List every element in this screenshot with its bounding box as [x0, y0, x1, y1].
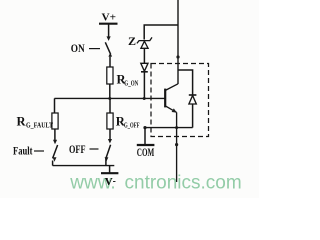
- svg-text:-: -: [113, 176, 116, 186]
- svg-text:G_FAULT: G_FAULT: [26, 121, 53, 129]
- resistor R_G_ON: [107, 67, 113, 84]
- svg-text:R: R: [17, 114, 27, 128]
- watermark www.cntronics.com: [69, 173, 241, 194]
- wire emitter diagonal: [165, 106, 176, 113]
- label ON: [71, 43, 100, 55]
- wire bottom rail: [53, 165, 115, 167]
- svg-text:V+: V+: [102, 12, 117, 24]
- wire with arrow: [53, 129, 57, 144]
- dashed box output stage: [151, 64, 209, 137]
- diode D2: [189, 95, 197, 104]
- junction: [175, 143, 178, 146]
- terminal COM: [137, 145, 155, 159]
- power terminal V+: [99, 12, 118, 24]
- wire: [105, 158, 107, 165]
- wire COM lead: [144, 128, 146, 145]
- wire top rail corner: [144, 25, 178, 40]
- wire: [52, 161, 54, 166]
- wire: [143, 72, 145, 99]
- label OFF: [69, 144, 99, 156]
- label V-: [105, 176, 116, 188]
- zener diode Z: [137, 37, 152, 48]
- svg-text:V: V: [105, 176, 113, 188]
- svg-text:G_ON: G_ON: [124, 80, 138, 88]
- wire: [109, 99, 111, 114]
- label Fault: [13, 146, 44, 158]
- wire: [54, 98, 56, 113]
- wire: [192, 104, 194, 128]
- wire diode branch: [178, 70, 193, 95]
- wire V+ lead with arrow: [107, 24, 111, 41]
- emitter arrow: [172, 108, 177, 112]
- junction: [143, 126, 146, 129]
- resistor R_G_FAULT: [52, 113, 58, 129]
- wire: [109, 84, 111, 99]
- wire with arrow: [108, 129, 112, 144]
- junction: [143, 97, 146, 100]
- svg-text:cntronics.com: cntronics.com: [125, 173, 242, 194]
- junction: [108, 97, 111, 100]
- power terminal V-: [101, 166, 118, 188]
- label R_G_OFF: [116, 114, 140, 129]
- wire collector diagonal: [165, 84, 178, 91]
- junction: [176, 55, 179, 58]
- wire emitter vertical: [176, 112, 178, 182]
- svg-text:Fault: Fault: [13, 146, 33, 158]
- junction: [175, 126, 178, 129]
- svg-text:ON: ON: [71, 43, 86, 55]
- switch Fault: [53, 145, 58, 162]
- resistor R_G_OFF: [107, 113, 113, 129]
- wire: [143, 48, 145, 63]
- svg-text:OFF: OFF: [69, 144, 86, 156]
- transistor Q1 base bar: [164, 89, 166, 108]
- label R_G_ON: [117, 73, 139, 88]
- svg-text:G_OFF: G_OFF: [124, 121, 140, 129]
- wire emitter horizontal: [145, 127, 193, 129]
- wire gate bus: [54, 97, 164, 99]
- wire main collector rail: [177, 0, 179, 84]
- wire: [109, 57, 111, 68]
- label R_G_FAULT: [17, 114, 54, 129]
- svg-text:Z: Z: [128, 34, 136, 48]
- switch ON: [105, 42, 112, 56]
- switch OFF: [105, 145, 111, 162]
- svg-text:COM: COM: [137, 147, 155, 159]
- diode D1: [141, 63, 148, 72]
